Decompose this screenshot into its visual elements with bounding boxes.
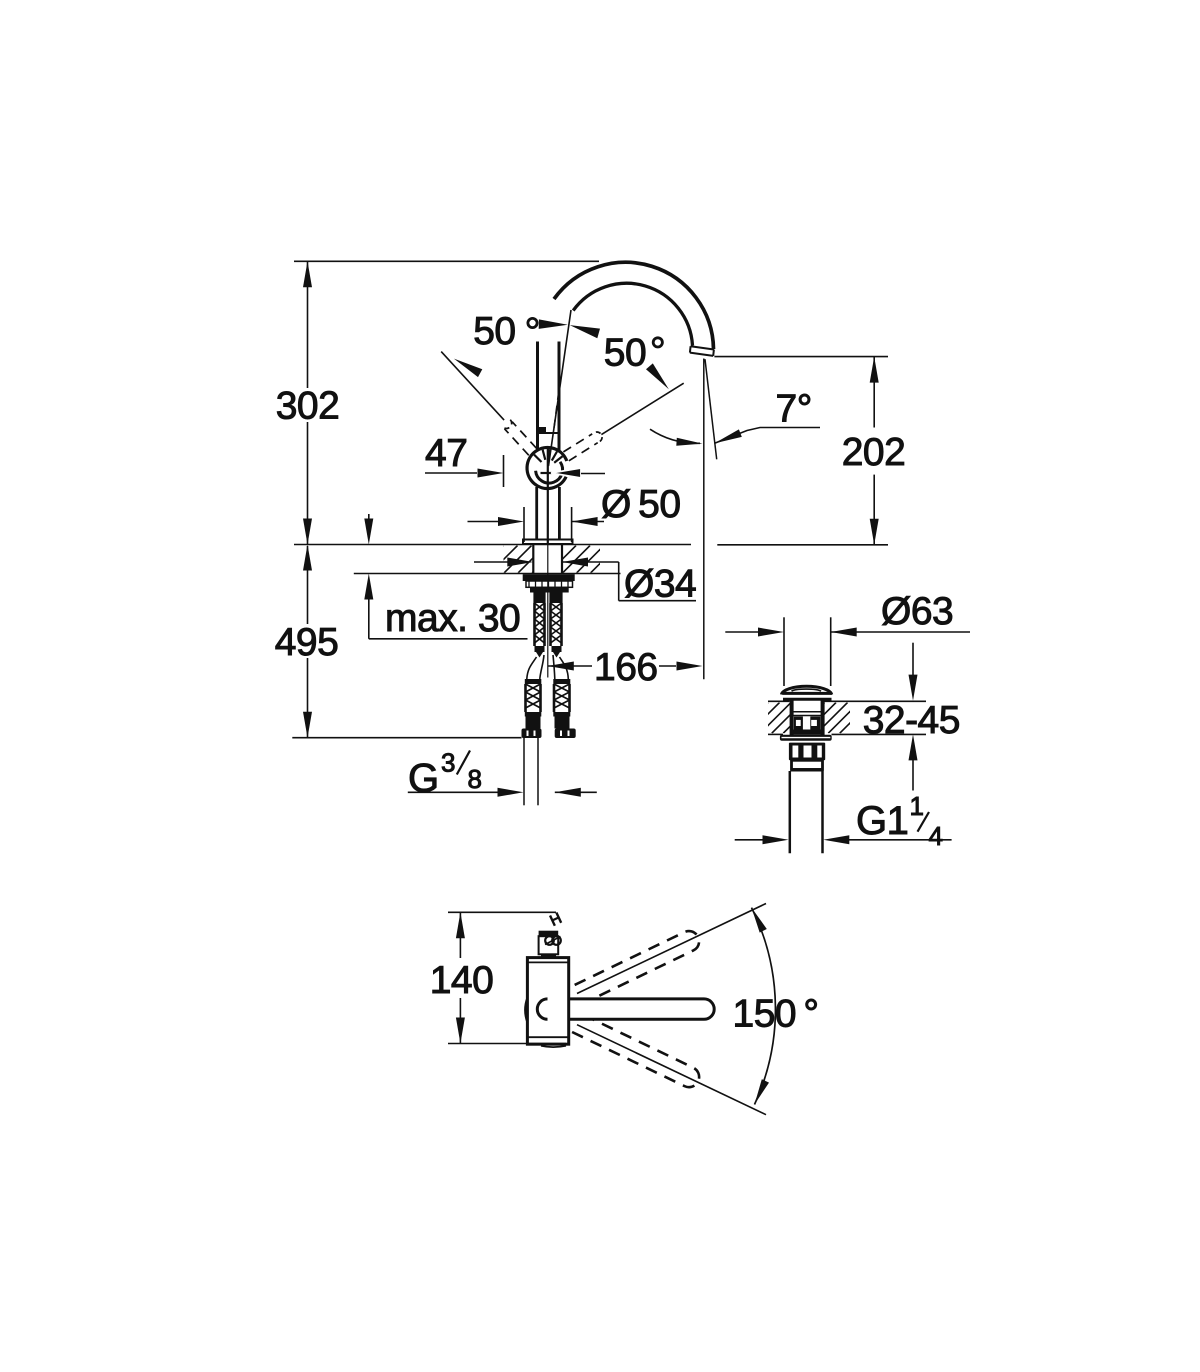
svg-text:50: 50	[604, 331, 646, 374]
svg-text:140: 140	[430, 959, 494, 1002]
svg-text:50: 50	[473, 310, 515, 353]
svg-text:max. 30: max. 30	[385, 597, 520, 640]
svg-text:150 °: 150 °	[733, 993, 819, 1036]
svg-text:Ø 50: Ø 50	[601, 483, 681, 526]
svg-text:495: 495	[275, 621, 339, 664]
svg-text:4: 4	[929, 821, 943, 851]
svg-text:47: 47	[425, 432, 467, 475]
svg-text:202: 202	[842, 431, 906, 474]
svg-text:Ø63: Ø63	[881, 590, 953, 633]
svg-text:3: 3	[441, 748, 455, 778]
svg-text:8: 8	[468, 764, 482, 794]
svg-text:G: G	[408, 756, 439, 800]
svg-text:166: 166	[594, 646, 658, 689]
svg-text:G1: G1	[856, 799, 908, 843]
svg-text:302: 302	[276, 385, 340, 428]
svg-text:1: 1	[910, 791, 924, 821]
svg-text:7°: 7°	[776, 388, 812, 431]
svg-text:Ø34: Ø34	[624, 563, 696, 606]
svg-text:32-45: 32-45	[863, 699, 960, 742]
